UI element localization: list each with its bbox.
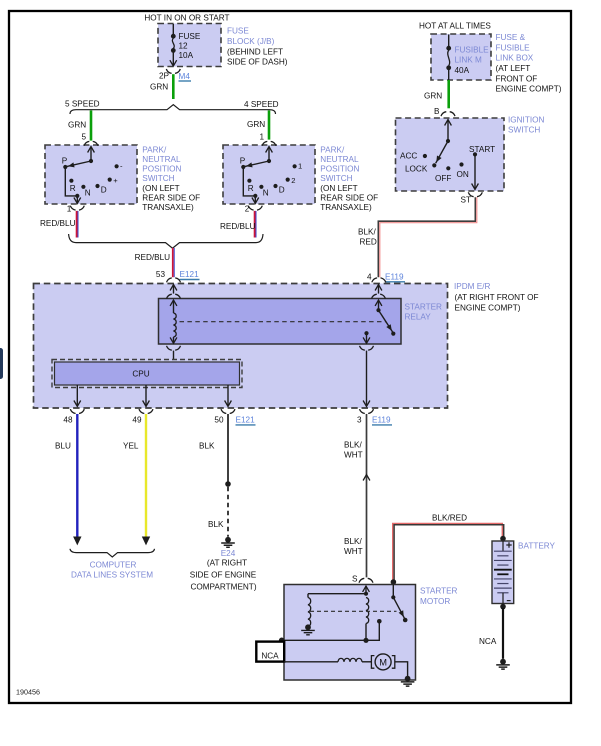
wire BLK/RED from ignition ST to IPDM pin 4 xyxy=(378,197,475,277)
svg-text:RED/BLU: RED/BLU xyxy=(135,253,171,262)
relay switch bottom connector xyxy=(360,346,374,350)
svg-text:R: R xyxy=(70,184,76,193)
svg-text:(AT LEFT: (AT LEFT xyxy=(496,64,531,73)
svg-text:FRONT OF: FRONT OF xyxy=(496,74,538,83)
fusible link M 40A element xyxy=(448,35,450,49)
svg-text:START: START xyxy=(469,145,495,154)
svg-text:COMPARTMENT): COMPARTMENT) xyxy=(190,583,256,592)
NCA box (starter) xyxy=(256,642,284,662)
svg-text:BLK/: BLK/ xyxy=(358,227,376,236)
relay switch input arrow xyxy=(375,300,382,306)
contact OFF xyxy=(446,166,450,170)
contact N xyxy=(81,185,85,189)
svg-text:NEUTRAL: NEUTRAL xyxy=(142,155,181,164)
connector at switch bottom xyxy=(70,206,84,210)
YEL arrowhead xyxy=(142,537,150,546)
junction pull-in/bar xyxy=(363,638,368,643)
contact - xyxy=(115,164,119,168)
svg-text:HOT AT ALL TIMES: HOT AT ALL TIMES xyxy=(419,22,491,31)
relay output arrow xyxy=(366,333,368,343)
svg-text:53: 53 xyxy=(156,270,166,279)
wire NCA to motor xyxy=(284,661,338,663)
relay internal dashed link xyxy=(180,321,387,323)
svg-text:CPU: CPU xyxy=(132,369,149,378)
svg-text:2: 2 xyxy=(245,204,250,213)
svg-text:4 SPEED: 4 SPEED xyxy=(244,100,279,109)
svg-text:COMPUTER: COMPUTER xyxy=(90,561,137,570)
wire RED/BLU from 5-speed switch xyxy=(76,211,78,238)
wire motor to ground xyxy=(395,662,408,677)
svg-text:(ON LEFT: (ON LEFT xyxy=(142,184,179,193)
svg-text:48: 48 xyxy=(63,415,73,424)
svg-text:R: R xyxy=(248,184,254,193)
merge brace for RED/BLU wires xyxy=(69,234,263,248)
svg-text:YEL: YEL xyxy=(123,441,139,450)
svg-text:STARTER: STARTER xyxy=(405,302,443,311)
svg-text:ENGINE COMPT): ENGINE COMPT) xyxy=(496,85,562,94)
CPU dashed box xyxy=(52,360,242,388)
svg-text:(AT RIGHT: (AT RIGHT xyxy=(207,559,247,568)
pin 50 connector xyxy=(221,409,235,413)
svg-text:IGNITION: IGNITION xyxy=(508,115,544,124)
svg-text:M4: M4 xyxy=(179,72,191,81)
wire BLK pin 50 xyxy=(227,414,229,482)
wire GRN to 4-speed switch xyxy=(268,110,271,139)
battery box xyxy=(492,541,514,604)
svg-text:ENGINE COMPT): ENGINE COMPT) xyxy=(455,303,521,312)
svg-text:2: 2 xyxy=(291,176,295,185)
svg-text:BLK: BLK xyxy=(208,520,224,529)
park/neutral position switch box xyxy=(45,145,137,204)
svg-text:SWITCH: SWITCH xyxy=(142,174,174,183)
ground E24 xyxy=(225,537,231,543)
svg-text:DATA LINES SYSTEM: DATA LINES SYSTEM xyxy=(71,570,153,579)
svg-text:1: 1 xyxy=(298,162,302,171)
switch input arrow xyxy=(266,147,273,153)
switch output arrow xyxy=(76,196,78,203)
switch arm to P xyxy=(245,161,270,167)
svg-text:49: 49 xyxy=(132,415,142,424)
pin 53 entry arrow xyxy=(170,285,177,291)
svg-text:TRANSAXLE): TRANSAXLE) xyxy=(320,203,372,212)
relay coil bottom connector xyxy=(167,346,181,350)
svg-text:12: 12 xyxy=(179,42,189,51)
relay coil xyxy=(174,313,177,337)
wire BLU pin 48 xyxy=(76,414,78,537)
relay switch input connector xyxy=(372,294,386,298)
battery top junction xyxy=(500,536,506,542)
svg-text:SIDE OF DASH): SIDE OF DASH) xyxy=(227,58,288,67)
svg-text:FUSE: FUSE xyxy=(179,32,201,41)
pin 48 connector xyxy=(70,409,84,413)
starter switch arm tip xyxy=(403,618,408,623)
ignition switch box xyxy=(396,118,505,191)
wire to hold-in coil xyxy=(308,593,366,595)
park/neutral position switch box xyxy=(223,145,315,204)
svg-text:LINK M: LINK M xyxy=(455,56,482,65)
split bus to 5-speed and 4-speed xyxy=(70,105,276,114)
svg-text:N: N xyxy=(263,188,269,197)
svg-text:E24: E24 xyxy=(221,549,236,558)
battery bottom junction xyxy=(500,604,506,610)
wire battery to ground xyxy=(502,608,504,659)
svg-text:RED/BLU: RED/BLU xyxy=(220,222,256,231)
hold-in coil xyxy=(308,598,311,627)
ignition pivot xyxy=(446,139,450,143)
svg-text:FUSIBLE: FUSIBLE xyxy=(455,45,490,54)
svg-text:BLU: BLU xyxy=(55,441,71,450)
contact R xyxy=(247,179,251,183)
wire relay to pin 3 xyxy=(366,351,368,407)
wire RED/BLU from 4-speed switch xyxy=(254,211,256,238)
svg-text:RED: RED xyxy=(360,238,377,247)
starter switch arm xyxy=(393,597,404,618)
svg-text:GRN: GRN xyxy=(68,120,86,129)
svg-text:BLOCK (J/B): BLOCK (J/B) xyxy=(227,37,275,46)
svg-text:NEUTRAL: NEUTRAL xyxy=(320,155,359,164)
contact ACC xyxy=(423,154,427,158)
left edge navy tab xyxy=(0,348,3,379)
fuse block J/B box xyxy=(158,24,221,67)
wire switch to motor bar xyxy=(282,621,380,640)
connector at switch top xyxy=(84,141,98,145)
relay switch contact (bottom) xyxy=(364,331,368,335)
battery internal stub top xyxy=(502,541,504,551)
svg-text:BLK/: BLK/ xyxy=(344,537,362,546)
wire GRN from fuse xyxy=(172,74,175,99)
wire RED/BLU to IPDM pin 53 xyxy=(172,248,174,277)
ignition input arrow xyxy=(445,120,452,126)
contact D xyxy=(95,184,99,188)
relay coil input connector xyxy=(167,294,181,298)
svg-text:190456: 190456 xyxy=(16,688,40,697)
starter motor box xyxy=(284,585,416,681)
pin 3 connector xyxy=(360,409,374,413)
svg-text:ACC: ACC xyxy=(400,151,417,160)
solenoid dashed link xyxy=(310,610,397,612)
svg-text:1: 1 xyxy=(259,132,264,141)
svg-text:2P: 2P xyxy=(159,72,170,81)
svg-text:1: 1 xyxy=(67,204,72,213)
junction at starter B terminal xyxy=(391,579,397,585)
CPU inner box xyxy=(55,362,240,385)
svg-text:MOTOR: MOTOR xyxy=(420,597,450,606)
svg-text:WHT: WHT xyxy=(344,451,363,460)
wire pull-in coil to bar xyxy=(365,624,367,641)
svg-text:E121: E121 xyxy=(180,270,200,279)
relay switch arm xyxy=(379,310,393,332)
contact 2 xyxy=(286,178,290,182)
svg-text:LOCK: LOCK xyxy=(405,164,428,173)
svg-text:40A: 40A xyxy=(455,66,470,75)
battery plates xyxy=(494,550,512,552)
svg-text:REAR SIDE OF: REAR SIDE OF xyxy=(142,193,200,202)
svg-text:5: 5 xyxy=(81,132,86,141)
svg-text:SWITCH: SWITCH xyxy=(508,126,540,135)
svg-text:RELAY: RELAY xyxy=(405,313,432,322)
svg-text:50: 50 xyxy=(214,415,224,424)
svg-text:STARTER: STARTER xyxy=(420,587,458,596)
svg-text:D: D xyxy=(101,185,107,194)
switch input arrow xyxy=(88,147,95,153)
contact N xyxy=(259,185,263,189)
svg-text:TRANSAXLE): TRANSAXLE) xyxy=(142,203,194,212)
svg-text:BLK/RED: BLK/RED xyxy=(432,514,467,523)
svg-text:S: S xyxy=(352,574,358,583)
relay coil input arrow xyxy=(170,300,177,306)
contact START xyxy=(473,152,477,156)
pin 4 entry arrow xyxy=(375,285,382,291)
svg-text:NCA: NCA xyxy=(479,637,497,646)
svg-text:5 SPEED: 5 SPEED xyxy=(65,99,100,108)
motor ground xyxy=(405,676,411,682)
svg-text:FUSE &: FUSE & xyxy=(496,33,526,42)
connector at switch top xyxy=(262,141,276,145)
switch pivot xyxy=(267,159,271,163)
contact P xyxy=(241,165,245,169)
brace computer data lines xyxy=(70,549,155,557)
svg-text:(AT RIGHT FRONT OF: (AT RIGHT FRONT OF xyxy=(455,293,539,302)
battery ground xyxy=(500,659,506,665)
CPU output wire pin 49 xyxy=(145,385,147,406)
svg-text:RED/BLU: RED/BLU xyxy=(40,219,76,228)
starter relay box xyxy=(159,299,402,345)
wire relay coil to CPU xyxy=(173,351,175,360)
output junction xyxy=(253,194,257,198)
solenoid junction xyxy=(364,592,368,596)
battery - mark xyxy=(507,600,511,602)
svg-text:LINK BOX: LINK BOX xyxy=(496,54,534,63)
svg-text:+: + xyxy=(113,176,118,185)
CPU output wire pin 50 xyxy=(227,385,229,406)
svg-text:ON: ON xyxy=(457,170,469,179)
svg-text:E119: E119 xyxy=(385,273,404,282)
wire BLK/WHT pin3 to S xyxy=(366,414,368,577)
svg-text:GRN: GRN xyxy=(150,82,168,91)
ignition switch arm to LOCK xyxy=(436,141,448,163)
svg-text:SIDE OF ENGINE: SIDE OF ENGINE xyxy=(190,571,257,580)
svg-text:3: 3 xyxy=(357,415,362,424)
hold-in coil ground xyxy=(305,624,311,630)
wire GRN from fusible link xyxy=(447,80,450,108)
CPU output wire pin 48 xyxy=(76,385,78,406)
svg-text:POSITION: POSITION xyxy=(142,165,181,174)
IPDM E/R box xyxy=(34,284,448,409)
svg-text:POSITION: POSITION xyxy=(320,165,359,174)
svg-text:D: D xyxy=(279,185,285,194)
svg-text:GRN: GRN xyxy=(247,120,265,129)
junction on BLK wire xyxy=(225,481,231,487)
svg-text:P: P xyxy=(240,156,246,165)
connector at starter S xyxy=(359,578,373,582)
contact LOCK xyxy=(432,163,436,167)
svg-text:N: N xyxy=(85,188,91,197)
svg-text:(BEHIND LEFT: (BEHIND LEFT xyxy=(227,47,283,56)
svg-text:FUSE: FUSE xyxy=(227,27,249,36)
connector 2P / M4 xyxy=(166,69,180,73)
pull-in coil xyxy=(366,598,369,624)
battery internal stub bottom xyxy=(502,593,504,604)
svg-text:BLK/: BLK/ xyxy=(344,440,362,449)
svg-text:P: P xyxy=(62,156,68,165)
relay switch contact (top) xyxy=(376,308,380,312)
svg-text:10A: 10A xyxy=(179,51,194,60)
wire GRN to 5-speed switch xyxy=(90,110,93,140)
motor series coil xyxy=(338,658,362,661)
battery + mark xyxy=(506,542,511,547)
fuse F12 10A element xyxy=(172,24,174,36)
wire START to ST output xyxy=(474,154,476,189)
output junction xyxy=(75,194,79,198)
svg-text:PARK/: PARK/ xyxy=(320,145,345,154)
contact P xyxy=(63,165,67,169)
wire BLK/RED starter to battery xyxy=(393,523,503,582)
connector at switch bottom xyxy=(248,206,262,210)
wire YEL pin 49 xyxy=(145,414,147,537)
contact + xyxy=(108,178,112,182)
svg-text:GRN: GRN xyxy=(424,92,442,101)
BLU arrowhead xyxy=(73,537,81,546)
svg-text:WHT: WHT xyxy=(344,547,363,556)
svg-text:(ON LEFT: (ON LEFT xyxy=(320,184,357,193)
contact ON xyxy=(459,162,463,166)
contact 1 xyxy=(293,164,297,168)
svg-text:E121: E121 xyxy=(236,416,256,425)
svg-text:NCA: NCA xyxy=(261,651,279,660)
svg-text:B: B xyxy=(434,107,440,116)
relay switch arm tip xyxy=(391,332,395,336)
svg-text:OFF: OFF xyxy=(435,174,451,183)
svg-text:FUSIBLE: FUSIBLE xyxy=(496,43,531,52)
svg-text:BATTERY: BATTERY xyxy=(518,542,556,551)
svg-text:HOT IN ON OR START: HOT IN ON OR START xyxy=(144,14,229,23)
fuse and fusible link box xyxy=(431,34,491,80)
connector at ignition bottom ST xyxy=(468,192,482,196)
mid-wire arrow xyxy=(363,475,370,481)
svg-text:IPDM E/R: IPDM E/R xyxy=(454,282,490,291)
wire P to output xyxy=(243,167,255,196)
switch pivot xyxy=(89,159,93,163)
svg-text:BLK: BLK xyxy=(199,441,215,450)
S input arrow xyxy=(363,586,370,592)
starter switch contact top xyxy=(391,595,395,599)
svg-text:4: 4 xyxy=(367,272,372,281)
dashed BLK wire to ground xyxy=(227,487,229,537)
motor M symbol xyxy=(371,656,374,669)
svg-text:REAR SIDE OF: REAR SIDE OF xyxy=(320,193,378,202)
starter switch contact bottom xyxy=(377,619,382,624)
svg-text:PARK/: PARK/ xyxy=(142,145,167,154)
contact D xyxy=(273,184,277,188)
svg-text:SWITCH: SWITCH xyxy=(320,174,352,183)
switch arm to P xyxy=(67,161,92,167)
contact R xyxy=(69,179,73,183)
junction NCA/bar xyxy=(279,638,285,644)
relay coil output arrow xyxy=(173,337,175,343)
switch output arrow xyxy=(254,196,256,203)
connector at ignition switch top xyxy=(441,112,455,116)
svg-text:E119: E119 xyxy=(372,416,391,425)
wire P to output xyxy=(65,167,77,196)
svg-text:M: M xyxy=(379,657,387,667)
svg-text:ST: ST xyxy=(461,195,471,204)
pin 49 connector xyxy=(139,409,153,413)
